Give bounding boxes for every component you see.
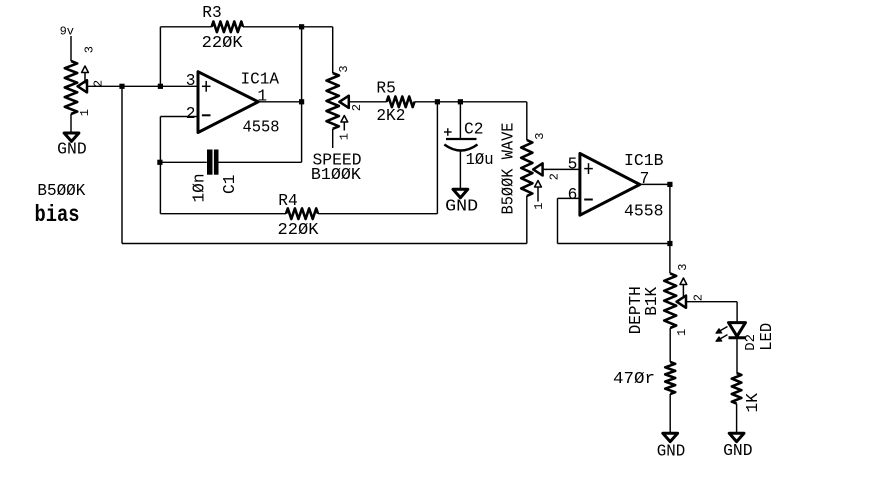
svg-text:1: 1 xyxy=(338,133,352,140)
svg-text:1Øu: 1Øu xyxy=(466,151,494,169)
svg-text:B1ØØK: B1ØØK xyxy=(311,166,361,184)
svg-text:B1K: B1K xyxy=(643,287,661,316)
svg-text:C2: C2 xyxy=(464,120,483,138)
svg-text:B5ØØK: B5ØØK xyxy=(37,182,85,200)
svg-text:22ØK: 22ØK xyxy=(202,34,243,52)
svg-text:3: 3 xyxy=(676,264,690,271)
svg-text:GND: GND xyxy=(723,442,753,460)
svg-text:3: 3 xyxy=(337,65,351,72)
svg-text:5: 5 xyxy=(568,156,578,174)
svg-text:7: 7 xyxy=(640,170,650,188)
svg-text:6: 6 xyxy=(568,186,578,204)
svg-text:R5: R5 xyxy=(376,79,395,97)
svg-text:3: 3 xyxy=(186,72,196,90)
svg-text:9v: 9v xyxy=(60,24,74,38)
svg-text:3: 3 xyxy=(533,133,547,140)
svg-text:2K2: 2K2 xyxy=(376,107,405,125)
svg-text:LED: LED xyxy=(758,323,776,351)
svg-text:1: 1 xyxy=(78,109,92,116)
svg-text:2: 2 xyxy=(350,104,364,111)
svg-text:47Ør: 47Ør xyxy=(613,370,655,388)
svg-text:IC1B: IC1B xyxy=(624,152,664,170)
svg-text:2: 2 xyxy=(92,80,106,87)
svg-text:1: 1 xyxy=(257,88,267,106)
svg-text:4558: 4558 xyxy=(624,203,664,221)
svg-text:C1: C1 xyxy=(221,175,239,194)
svg-text:D2: D2 xyxy=(743,334,759,351)
svg-text:GND: GND xyxy=(657,442,686,460)
svg-text:R3: R3 xyxy=(202,4,221,22)
svg-text:2: 2 xyxy=(186,105,196,123)
svg-text:bias: bias xyxy=(35,202,80,228)
svg-text:GND: GND xyxy=(445,198,478,216)
svg-text:2: 2 xyxy=(692,294,706,301)
svg-text:3: 3 xyxy=(83,46,97,53)
svg-text:22ØK: 22ØK xyxy=(278,221,319,239)
svg-text:1: 1 xyxy=(675,329,689,336)
svg-text:2: 2 xyxy=(547,173,561,180)
svg-text:B5ØØK WAVE: B5ØØK WAVE xyxy=(500,123,518,215)
svg-text:1: 1 xyxy=(532,203,546,210)
svg-text:GND: GND xyxy=(57,140,86,158)
svg-text:1Øn: 1Øn xyxy=(191,174,209,203)
svg-text:IC1A: IC1A xyxy=(241,70,280,88)
svg-text:4558: 4558 xyxy=(243,119,280,137)
svg-text:1K: 1K xyxy=(744,393,762,413)
svg-text:R4: R4 xyxy=(278,192,297,210)
